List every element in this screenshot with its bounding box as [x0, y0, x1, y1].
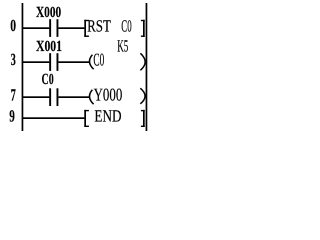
wire rung3 mid — [58, 61, 90, 63]
coil close paren — [140, 88, 145, 104]
wire rung7 left — [23, 96, 49, 98]
wire rung0 mid — [58, 27, 84, 29]
svg-text:X001: X001 — [36, 38, 62, 55]
instruction RST C0 : left bracket — [84, 20, 86, 37]
svg-text:C0: C0 — [121, 16, 131, 35]
END left bracket — [84, 110, 86, 127]
svg-text:3: 3 — [11, 50, 16, 69]
right bracket — [143, 20, 145, 37]
wire rung7 mid — [58, 96, 90, 98]
svg-text:Y000: Y000 — [94, 85, 123, 105]
END right bracket — [143, 110, 145, 127]
svg-text:X000: X000 — [36, 4, 61, 21]
right power rail — [146, 3, 148, 131]
wire rung9 — [23, 117, 84, 119]
svg-text:0: 0 — [10, 16, 16, 35]
coil open paren — [89, 55, 93, 69]
svg-text:9: 9 — [9, 106, 15, 125]
contact X001 — [49, 53, 51, 71]
svg-text:7: 7 — [11, 85, 17, 104]
contact C0 — [49, 88, 51, 106]
wire rung3 left — [23, 61, 49, 63]
svg-text:RST: RST — [87, 16, 111, 35]
svg-text:C0: C0 — [42, 71, 54, 88]
svg-text:C0: C0 — [93, 50, 104, 70]
coil close paren — [140, 53, 145, 70]
svg-text:K5: K5 — [117, 36, 128, 55]
svg-text:END: END — [94, 106, 121, 125]
coil open paren — [89, 90, 93, 104]
wire rung0 left — [23, 27, 49, 29]
left power rail — [22, 3, 24, 131]
contact X000 — [49, 19, 51, 37]
